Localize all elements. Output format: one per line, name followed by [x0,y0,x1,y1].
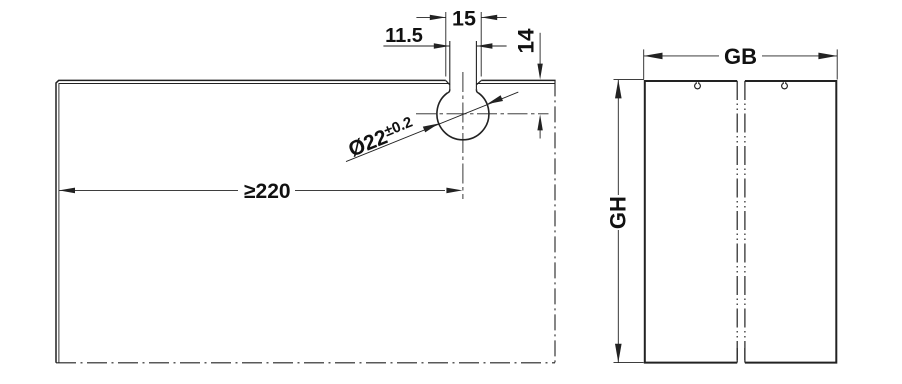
middle line solid bottom segments [736,348,738,363]
11.5 dim line + right tail [383,45,506,47]
svg-text:≥220: ≥220 [244,180,291,203]
GH dim line upper part [617,80,619,195]
slot left edge / 11.5 extension line [449,41,451,89]
220 arrow right (at hole centerline) [446,188,462,194]
GH dim line lower part [617,230,619,363]
hole Ø22 arc [437,93,489,140]
15 extension line left [445,12,447,77]
notch keyhole 2 [782,82,788,89]
slot-to-hole fillet left [448,89,450,93]
15 extension line right [480,12,482,77]
svg-text:GB: GB [724,44,757,69]
hole vertical centerline [462,72,464,199]
svg-text:15: 15 [452,7,476,31]
GH bottom extension line [614,362,644,364]
Ø22 arrow lower-left [423,124,439,133]
GB arrow left [644,53,663,60]
glass outer top edge right of slot [481,79,555,81]
15 arrow left [430,15,446,20]
14 dim line upper [539,33,541,66]
middle phantom line left [736,81,738,363]
15 arrow right [481,15,497,20]
GB dim line right part [762,55,837,57]
right edge dash-dot (panel continues) [554,80,556,363]
15 dim line left tail [416,16,445,18]
220 dim line left part [59,189,238,191]
glass inner top edge right of slot [477,83,555,85]
slot mouth bevel left [446,81,450,85]
glass inner edge line (left + top, thin second line) [59,84,450,363]
220 dim line right part [295,189,445,191]
Ø22 arrow upper-right [487,95,503,104]
notch keyhole 1 [695,82,701,89]
svg-text:14: 14 [514,28,539,54]
bottom edge dash-dot (panel continues) [56,362,555,364]
slot right edge / 11.5 extension line [475,41,477,89]
15 dim line right tail [481,16,506,18]
glass outer edge (left + top with corner bevel, left part up to slot) [56,80,446,362]
14 dim line lower tail [539,128,541,139]
right panel outline [745,81,836,363]
hole horizontal centerline [416,113,549,115]
11.5 arrow right [476,43,492,48]
14 arrow down (to top edge) [537,64,542,80]
14 arrow up (to hole centerline) [537,114,542,130]
middle phantom line right [744,81,746,363]
GB dim line left part [644,55,719,57]
GH arrow up [615,80,622,99]
220 arrow left (at panel edge) [59,188,75,194]
GB extension line left [643,49,645,79]
Ø22 label (rotated along leader) [345,114,418,162]
left panel outline [645,81,737,363]
slot-to-hole fillet right [476,89,478,93]
GB extension line right [836,49,838,79]
slot mouth bevel right [476,81,481,85]
svg-text:11.5: 11.5 [385,25,423,47]
GH arrow down [615,344,622,363]
Ø22 leader line (diagonal across hole) [346,92,518,162]
svg-text:GH: GH [605,196,630,229]
GB arrow right [818,53,837,60]
11.5 arrow left [434,43,450,48]
GH top extension line [614,79,644,81]
